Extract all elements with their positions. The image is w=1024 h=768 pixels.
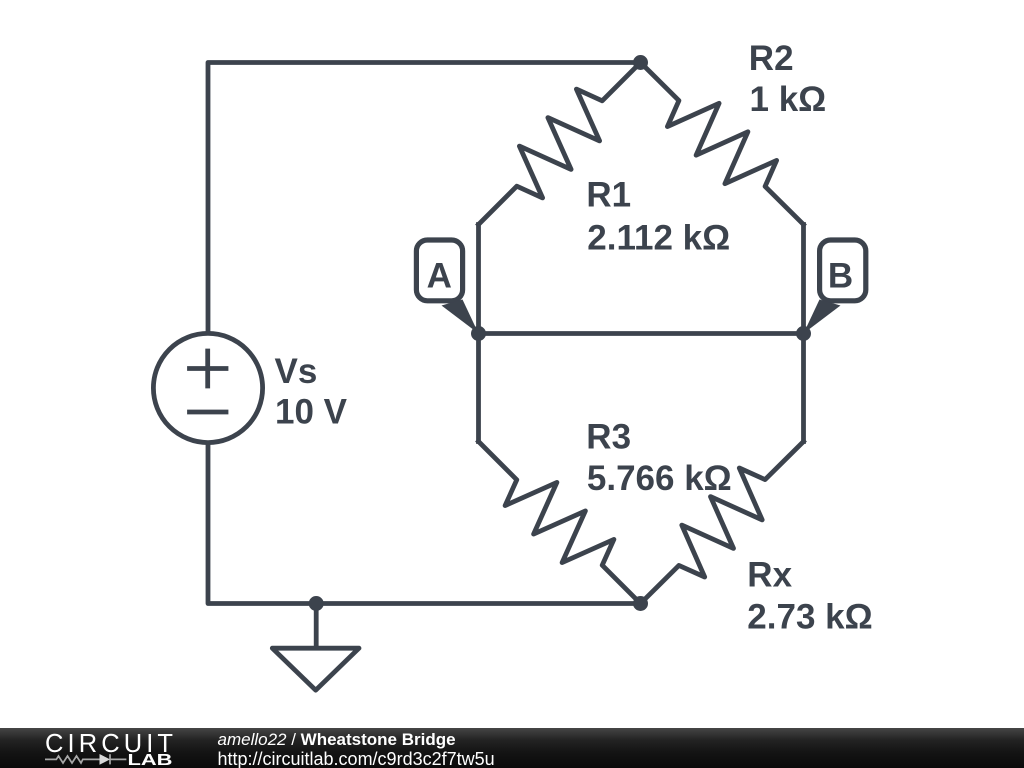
- svg-text:A: A: [427, 257, 452, 296]
- svg-text:Vs: Vs: [275, 352, 318, 391]
- svg-text:5.766 kΩ: 5.766 kΩ: [587, 459, 732, 498]
- ground stub wire: [314, 604, 319, 647]
- Vs plus sign: [190, 351, 227, 386]
- resistor R2: [641, 63, 804, 225]
- Vs minus sign: [190, 410, 227, 415]
- svg-text:http://circuitlab.com/c9rd3c2f: http://circuitlab.com/c9rd3c2f7tw5u: [218, 749, 495, 768]
- ground symbol triangle: [272, 648, 359, 690]
- svg-text:Rx: Rx: [747, 555, 792, 594]
- wire middle bridge A-B: [479, 331, 804, 336]
- svg-text:10 V: 10 V: [275, 392, 348, 431]
- resistor R1: [479, 63, 641, 225]
- node label B box: [820, 240, 866, 301]
- voltage source Vs circle: [153, 333, 262, 442]
- node label A box: [416, 240, 462, 301]
- svg-text:R1: R1: [586, 176, 631, 215]
- node A junction: [471, 326, 486, 341]
- svg-text:R2: R2: [749, 39, 794, 78]
- node A pointer wedge: [442, 300, 479, 334]
- node B pointer wedge: [804, 300, 841, 334]
- wire R1 corner to R3 corner through node A: [476, 225, 481, 442]
- ground junction: [309, 596, 324, 611]
- resistor Rx: [641, 442, 804, 604]
- resistor R3: [479, 442, 641, 604]
- logo diode bar: [109, 754, 111, 764]
- logo resistor squiggle: [45, 756, 100, 763]
- wire bottom left rail: [208, 444, 641, 604]
- footer bar: [0, 728, 1024, 768]
- svg-text:2.112 kΩ: 2.112 kΩ: [587, 218, 730, 257]
- node junction top: [633, 55, 648, 70]
- svg-text:LAB: LAB: [128, 752, 173, 768]
- wire top rail: [208, 63, 641, 333]
- svg-text:R3: R3: [586, 418, 631, 457]
- logo diode output wire: [110, 758, 126, 760]
- svg-text:B: B: [828, 257, 853, 296]
- svg-text:1 kΩ: 1 kΩ: [750, 80, 827, 119]
- svg-text:2.73 kΩ: 2.73 kΩ: [747, 598, 872, 637]
- svg-text:amello22 / Wheatstone Bridge: amello22 / Wheatstone Bridge: [218, 730, 456, 749]
- wire R2 corner to Rx corner through node B: [801, 225, 806, 442]
- node junction bottom: [633, 596, 648, 611]
- logo diode triangle: [100, 754, 111, 765]
- node B junction: [796, 326, 811, 341]
